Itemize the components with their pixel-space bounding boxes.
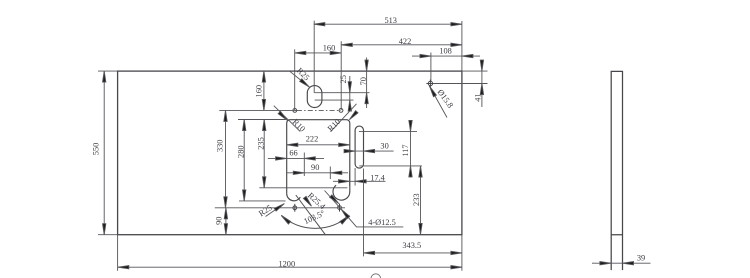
- svg-text:233: 233: [412, 193, 421, 206]
- hole BR 12.5: [338, 204, 342, 212]
- dimension 160 vertical: [262, 71, 265, 110]
- cutout left slant edge: [296, 195, 325, 234]
- side view plate (thickness 39): [611, 71, 622, 270]
- dimension 222: [287, 143, 350, 146]
- dimension 550: [98, 71, 118, 235]
- svg-text:513: 513: [384, 16, 397, 25]
- inner cutout outline: [287, 120, 350, 200]
- svg-text:Ø15.8: Ø15.8: [436, 88, 455, 110]
- plate outline (front view 1200x550): [118, 71, 462, 235]
- dimension 117: [359, 120, 422, 178]
- leader 4-dia12.5: [340, 208, 403, 227]
- cutout bottom-left R25 arc: [287, 194, 301, 201]
- dimension 25: [315, 76, 370, 111]
- dimension 235: [259, 120, 347, 188]
- svg-text:160: 160: [323, 44, 336, 53]
- svg-text:90: 90: [311, 163, 319, 172]
- svg-text:17.4: 17.4: [370, 173, 385, 182]
- svg-text:70: 70: [359, 77, 368, 85]
- dimension 1200: [118, 235, 462, 271]
- dimension 30: [344, 149, 394, 152]
- svg-text:103.5°: 103.5°: [302, 209, 326, 227]
- hole TR 12.5: [339, 109, 343, 113]
- hole BL 12.5: [293, 204, 297, 212]
- leader R10 left: [274, 106, 300, 132]
- hole TL 12.5: [293, 109, 297, 113]
- svg-text:25: 25: [339, 75, 348, 83]
- svg-text:160: 160: [255, 85, 264, 98]
- svg-text:222: 222: [306, 134, 319, 143]
- dimension 280: [238, 120, 287, 201]
- leader R25 bottom left: [266, 202, 286, 216]
- svg-text:39: 39: [637, 253, 645, 262]
- svg-text:117: 117: [401, 144, 410, 156]
- svg-text:41: 41: [474, 93, 483, 101]
- dimension 233: [419, 166, 422, 234]
- arc 103.5 degrees: [280, 214, 350, 228]
- dimension 90 left bottom: [224, 208, 227, 235]
- dimension 39: [592, 262, 651, 265]
- centerline row bottom holes: [215, 207, 345, 209]
- svg-text:R25: R25: [257, 203, 274, 218]
- svg-text:30: 30: [380, 142, 388, 151]
- dimension 422: [341, 41, 462, 110]
- leader R10 right: [331, 104, 359, 132]
- dimension 330: [224, 110, 227, 207]
- svg-text:422: 422: [399, 37, 412, 46]
- leader R25 top slot: [289, 71, 310, 89]
- slot 30x117 obround right: [355, 126, 363, 168]
- svg-text:280: 280: [237, 145, 246, 158]
- svg-text:330: 330: [216, 140, 225, 153]
- svg-text:343.5: 343.5: [402, 241, 421, 250]
- svg-text:550: 550: [92, 143, 101, 156]
- dimension 90 middle: [287, 167, 349, 180]
- dimension 108: [412, 53, 480, 82]
- svg-text:1200: 1200: [278, 259, 295, 268]
- svg-text:R25: R25: [295, 66, 311, 82]
- centerline row top holes: [219, 109, 341, 111]
- dimension 343.5: [364, 169, 462, 271]
- small circle bottom notch: [371, 274, 381, 278]
- leader R25.4: [325, 191, 343, 211]
- svg-text:235: 235: [257, 137, 266, 150]
- svg-text:4-Ø12.5: 4-Ø12.5: [368, 218, 396, 227]
- leader dia 15.8: [428, 86, 447, 118]
- dimension 41: [433, 60, 488, 107]
- svg-text:108: 108: [439, 47, 452, 56]
- dimension 66: [268, 153, 324, 177]
- svg-text:66: 66: [289, 149, 297, 158]
- dimension 160 horizontal: [295, 49, 342, 110]
- hole 15.8: [426, 80, 434, 88]
- svg-text:90: 90: [214, 217, 223, 225]
- dimension 513: [314, 21, 462, 93]
- slot R25 obround top: [307, 86, 322, 108]
- dimension 70: [365, 58, 368, 109]
- dimension 17.4: [333, 168, 386, 186]
